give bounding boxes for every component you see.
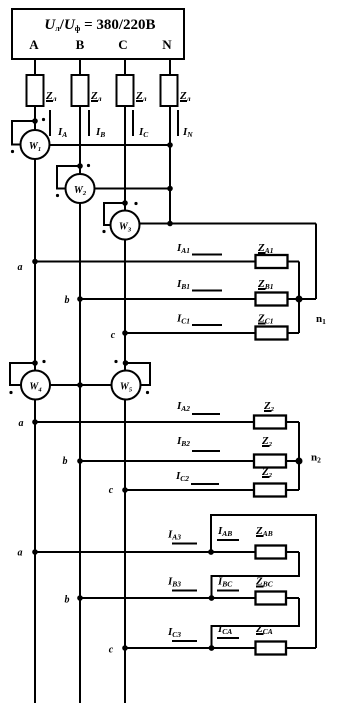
svg-text:a: a xyxy=(18,548,23,559)
svg-text:c: c xyxy=(109,485,114,496)
svg-text:B: B xyxy=(76,37,85,52)
svg-text:a: a xyxy=(18,262,23,273)
svg-text:b: b xyxy=(65,595,70,606)
svg-text:a: a xyxy=(19,418,24,429)
svg-text:C: C xyxy=(118,37,127,52)
svg-text:N: N xyxy=(162,37,172,52)
svg-text:b: b xyxy=(63,456,68,467)
svg-text:c: c xyxy=(109,645,114,656)
svg-text:b: b xyxy=(65,295,70,306)
svg-text:Uл/Uф = 380/220В: Uл/Uф = 380/220В xyxy=(44,17,155,33)
svg-text:A: A xyxy=(29,37,39,52)
svg-text:c: c xyxy=(111,330,116,341)
